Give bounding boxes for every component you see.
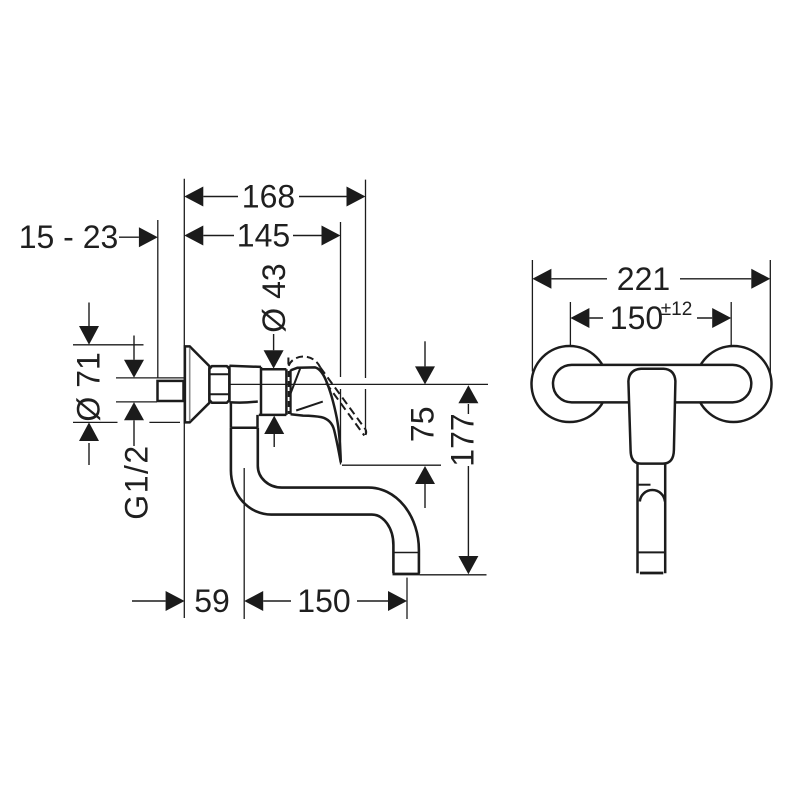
wall finished face line [183,179,185,618]
spout outer curve [231,428,394,574]
svg-text:15 - 23: 15 - 23 [19,219,119,255]
dimension 177 [458,385,478,574]
wall rough face line [157,220,159,378]
right escutcheon circle [696,346,772,422]
union nut [209,366,229,403]
front view 150 extension lines [570,302,731,349]
front outlet bottom [640,572,663,575]
spout inner curve [258,428,419,574]
extension line spout centre [243,468,245,619]
front spout joint tick [637,484,650,486]
front view 221 extension lines [532,260,770,375]
front spout bend arch [640,490,665,501]
handle tip reference line [342,464,441,466]
escutcheon inner edge [189,348,191,421]
dimension G1/2 arrows [124,336,144,447]
handle inner line [296,402,323,411]
handle raised dashed arc [289,357,321,368]
dimension 15 - 23 [119,227,158,247]
svg-text:177: 177 [445,413,481,466]
dimension diameter 71 arrows [79,303,99,466]
centre axis line [210,383,488,385]
handle raised dashed bottom line [326,383,364,436]
svg-text:75: 75 [405,407,441,443]
dimension 150 plusminus 12 [570,308,731,328]
svg-text:Ø 43: Ø 43 [256,263,292,332]
dimension 221 [532,269,770,289]
handle front edge [290,368,300,394]
front spout tube [638,464,666,574]
tick lines diameter 71 [73,345,180,423]
handle raised dashed base [287,358,289,367]
outlet bottom reference line [420,574,487,576]
dimension 145 [184,226,340,246]
svg-text:150: 150 [297,583,350,619]
front aerator line [638,551,666,553]
svg-text:150: 150 [610,300,663,336]
left escutcheon circle [532,346,608,422]
extension line 145 right [340,222,342,465]
svg-text:145: 145 [237,218,290,254]
tick lines G1/2 [116,378,184,402]
aerator line [393,552,419,554]
handle base [290,370,292,415]
handle raised dashed tip [364,430,366,436]
dimension 59 [132,591,185,611]
dimension 150 bottom [244,591,407,611]
svg-text:221: 221 [617,261,670,297]
handle raised dashed top line [320,367,366,430]
svg-text:G1/2: G1/2 [119,444,155,519]
front handle [628,369,675,464]
union nut facet lines [209,374,229,394]
extension line outlet centre [406,578,408,619]
mixer body [229,366,261,415]
svg-text:Ø 71: Ø 71 [71,352,107,421]
handle lever solid [291,367,341,462]
extension line 168 right [365,180,367,435]
svg-text:59: 59 [194,583,230,619]
dimension diameter 43 arrows [264,334,285,447]
cartridge hidden edge dashed [288,371,290,414]
cartridge housing [259,369,287,415]
dimension 168 [184,187,365,207]
body capsule [553,365,751,403]
svg-text:168: 168 [242,179,295,215]
svg-text:±12: ±12 [661,299,693,320]
dimension 75 [415,341,435,508]
outlet bottom edge [393,573,420,576]
escutcheon cone [185,346,210,422]
spout connector [231,402,258,428]
supply pipe stub [158,381,184,401]
